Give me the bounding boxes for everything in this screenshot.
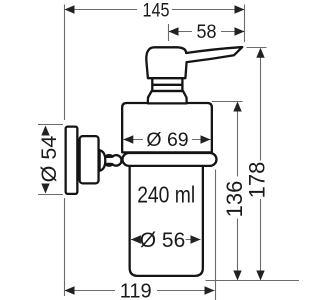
dimension line 145: [65, 9, 245, 11]
arrow dia54 bottom: [41, 184, 49, 194]
extension line right of 119: [215, 170, 217, 300]
extension lines dia54: [38, 125, 63, 195]
dimension line dia69: [123, 139, 210, 141]
arrow dia56 left: [131, 235, 141, 243]
extension line top of 178: [247, 47, 267, 49]
svg-text:58: 58: [197, 22, 217, 43]
extension line right of 145/58: [244, 5, 246, 43]
pump flange: [148, 91, 187, 103]
dimension line dia54: [45, 133, 47, 185]
svg-text:136: 136: [222, 181, 247, 218]
dimension line 136: [237, 112, 239, 272]
extension line left of 119: [64, 198, 66, 296]
dimension line dia56: [131, 239, 201, 241]
svg-text:119: 119: [120, 280, 152, 300]
extension line left of 58: [168, 24, 170, 41]
svg-text:Ø 54: Ø 54: [37, 136, 61, 183]
arrow 145 right: [235, 5, 245, 13]
arrow dia56 right: [191, 235, 201, 243]
svg-text:145: 145: [143, 0, 170, 21]
holder ring: [122, 153, 216, 166]
dimension line 58: [169, 31, 245, 33]
arrow 136 top: [233, 102, 241, 112]
svg-text:Ø 69: Ø 69: [146, 129, 188, 151]
svg-text:240 ml: 240 ml: [137, 181, 195, 207]
arrow dia54 top: [41, 126, 49, 136]
escutcheon: [80, 136, 99, 183]
svg-text:Ø 56: Ø 56: [140, 229, 186, 252]
arrow 58 right: [235, 27, 245, 35]
arrow dia69 left: [123, 135, 133, 143]
arrow 178 top: [256, 48, 264, 58]
arrow 119 left: [65, 286, 75, 294]
dimension line 178: [260, 58, 262, 272]
pump knob with spout lever: [146, 47, 242, 78]
extension line left of 145: [64, 5, 66, 121]
extension line bottom of 136/178: [206, 280, 300, 282]
extension line top of 136: [212, 101, 243, 103]
arrow 58 left: [169, 27, 179, 35]
pump neck band: [152, 78, 183, 91]
arrow 178 bottom: [256, 271, 264, 281]
collar: [100, 150, 106, 171]
arrow 119 right: [205, 286, 215, 294]
cup (upper container): [122, 103, 212, 152]
dimension line 119: [65, 290, 215, 292]
svg-text:178: 178: [245, 162, 270, 199]
arrow 136 bottom: [233, 271, 241, 281]
glass bottle (lower container): [130, 164, 203, 276]
arrow dia69 right: [201, 135, 211, 143]
wall plate: [66, 127, 78, 194]
support arm with ball joint: [104, 155, 122, 166]
arrow 145 left: [65, 5, 75, 13]
